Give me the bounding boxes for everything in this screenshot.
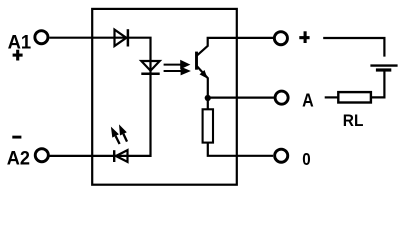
svg-text:A2: A2 [7,148,30,170]
svg-text:A1: A1 [8,32,32,54]
svg-text:RL: RL [343,112,364,130]
svg-text:A: A [302,89,314,110]
svg-text:0: 0 [302,149,311,169]
